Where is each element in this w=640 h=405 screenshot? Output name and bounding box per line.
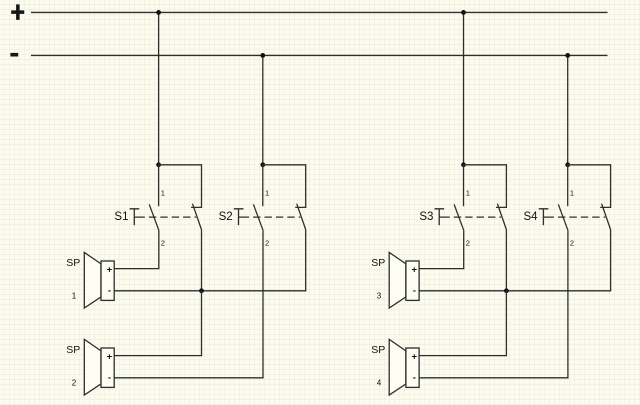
speaker SP2 cone (84, 339, 101, 395)
wire S1 pole A to SP1 + (114, 230, 159, 268)
junction node SP3-/S3 pole B/SP4+ (504, 288, 509, 293)
svg-text:SP: SP (371, 257, 385, 269)
svg-text:3: 3 (377, 292, 382, 301)
switch S1 pole A terminal 1 (158, 165, 160, 206)
switch S1 pole B lever (193, 204, 202, 230)
wire junction to SP2 + (114, 291, 201, 356)
switch S3 pole A lever (454, 204, 464, 230)
wire S3 pole A to SP3 + (419, 230, 464, 268)
switch S2 pole A lever (253, 204, 263, 230)
switch S2 gang dashed link (253, 216, 300, 218)
svg-text:-: - (108, 373, 111, 384)
svg-text:+: + (107, 265, 113, 276)
wire junction to SP4 + (419, 291, 506, 356)
switch S2 pole A terminal 1 (262, 165, 264, 206)
switch S4 wire top bracket to pole B (568, 165, 611, 208)
wire + bus to S1 (158, 12, 160, 164)
switch S2 pole B lever (297, 204, 306, 230)
svg-text:2: 2 (72, 379, 77, 388)
svg-text:+: + (412, 265, 418, 276)
switch S2 actuator (234, 209, 249, 225)
speaker SP3 driver body (406, 261, 419, 300)
svg-text:1: 1 (466, 188, 470, 197)
switch S4 gang dashed link (558, 216, 605, 218)
junction node SP1-/S1 pole B/SP2+ (199, 288, 204, 293)
svg-text:S2: S2 (219, 211, 233, 223)
wire - bus to S4 (567, 55, 569, 164)
wire - bus to S2 (262, 55, 264, 164)
switch S3 actuator (435, 209, 450, 225)
switch S3 input junction (461, 162, 466, 167)
switch S1 gang dashed link (149, 216, 196, 218)
svg-text:S4: S4 (524, 211, 539, 223)
svg-text:-: - (413, 373, 416, 384)
speaker SP1 cone (84, 252, 101, 308)
wire S2 pole A to SP2 - (114, 230, 263, 378)
svg-text:1: 1 (161, 188, 165, 197)
switch S1 actuator (130, 209, 145, 225)
switch S3 wire top bracket to pole B (464, 165, 507, 208)
switch S2 input junction (260, 162, 265, 167)
switch S4 input junction (565, 162, 570, 167)
svg-text:SP: SP (371, 344, 385, 356)
junction + bus / S3 drop (461, 10, 466, 15)
switch S4 pole A terminal 1 (567, 165, 569, 206)
switch S3 pole B lever (497, 204, 506, 230)
speaker SP1 driver body (101, 261, 114, 300)
switch S1 input junction (156, 162, 161, 167)
speaker SP3 cone (389, 252, 406, 308)
switch S1 wire top bracket to pole B (159, 165, 202, 208)
wire + bus (31, 11, 608, 13)
wire S1 pole B down (201, 230, 203, 291)
speaker SP4 cone (389, 339, 406, 395)
wire - bus (31, 54, 608, 56)
wire S4 pole A to SP4 - (419, 230, 568, 378)
switch S1 pole A lever (149, 204, 159, 230)
switch S2 wire top bracket to pole B (263, 165, 306, 208)
speaker SP2 driver body (101, 348, 114, 387)
wire + bus to S3 (463, 12, 465, 164)
svg-text:+: + (107, 352, 113, 363)
svg-text:S1: S1 (114, 211, 128, 223)
switch S3 pole A terminal 1 (463, 165, 465, 206)
svg-text:2: 2 (570, 238, 574, 247)
svg-text:1: 1 (570, 188, 574, 197)
svg-text:SP: SP (66, 257, 80, 269)
svg-text:2: 2 (466, 238, 470, 247)
wire SP3 - to S4 pole B (419, 230, 610, 291)
junction - bus / S4 drop (565, 53, 570, 58)
wire SP1 - to S2 pole B (114, 230, 306, 291)
switch S4 actuator (539, 209, 554, 225)
svg-text:SP: SP (66, 344, 80, 356)
svg-text:S3: S3 (419, 211, 433, 223)
svg-text:-: - (108, 286, 111, 297)
net - label (10, 53, 18, 57)
svg-text:2: 2 (265, 238, 269, 247)
svg-text:-: - (413, 286, 416, 297)
svg-text:2: 2 (161, 238, 165, 247)
junction - bus / S2 drop (260, 53, 265, 58)
svg-text:1: 1 (265, 188, 269, 197)
wire S3 pole B down (505, 230, 507, 291)
junction + bus / S1 drop (156, 10, 161, 15)
svg-text:4: 4 (377, 379, 382, 388)
svg-text:1: 1 (72, 292, 77, 301)
switch S4 pole B lever (602, 204, 611, 230)
switch S4 pole A lever (558, 204, 568, 230)
net + label (11, 4, 24, 20)
svg-text:+: + (412, 352, 418, 363)
speaker SP4 driver body (406, 348, 419, 387)
switch S3 gang dashed link (454, 216, 501, 218)
